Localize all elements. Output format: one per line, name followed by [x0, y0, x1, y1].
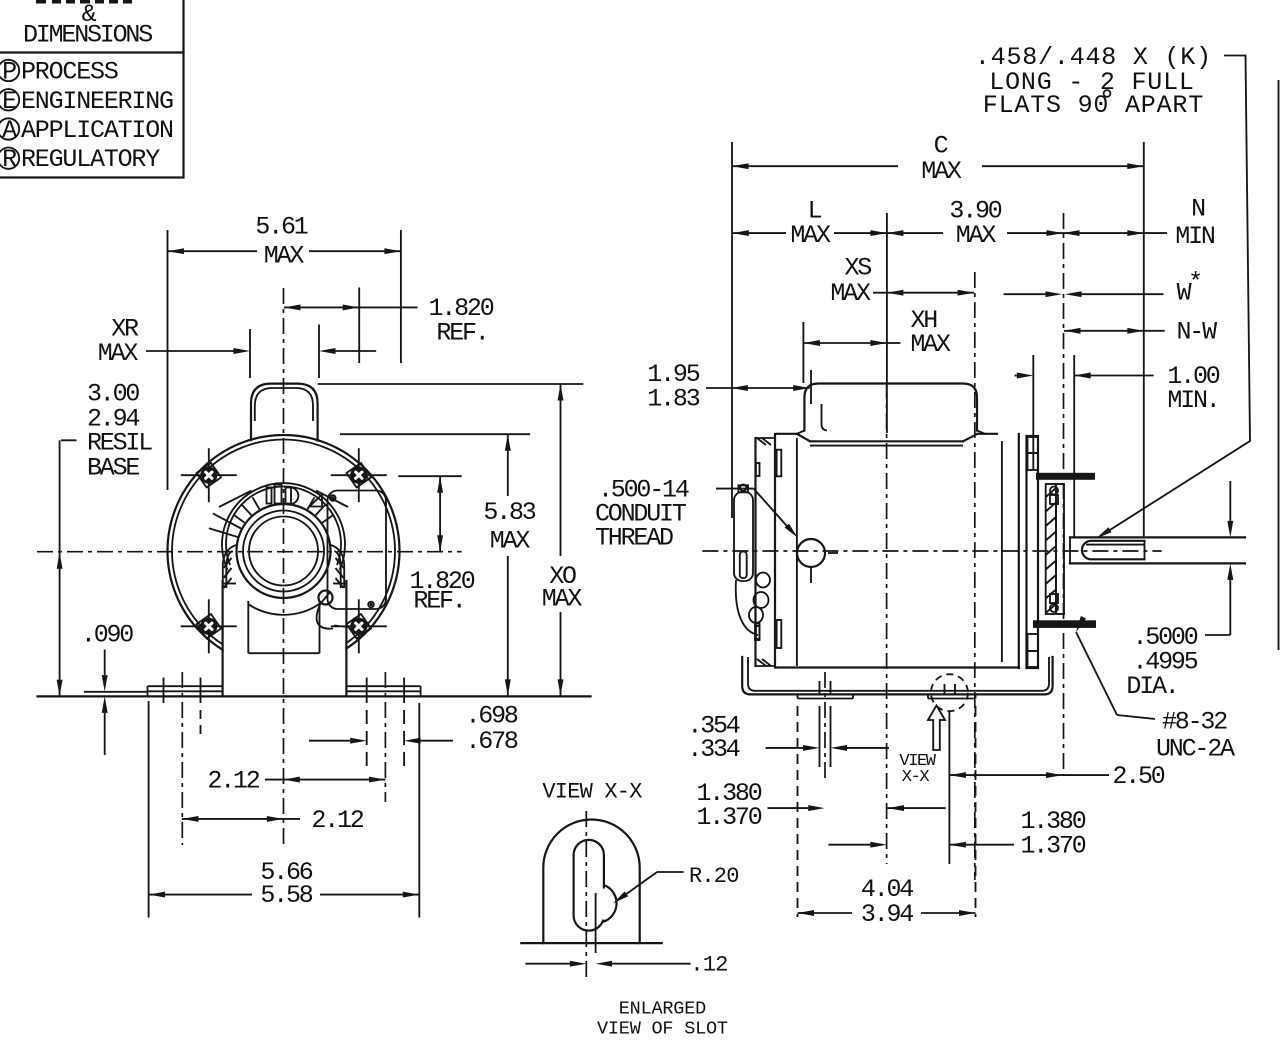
- body top line right: [978, 433, 998, 435]
- label R.20: [657, 871, 684, 873]
- svg-text:DIMENSIONS: DIMENSIONS: [23, 21, 152, 50]
- dim 1.380 1.370 right: [828, 807, 1085, 861]
- slot edge eraser under bump: [602, 889, 605, 920]
- bell bottom arc in window: [248, 604, 319, 615]
- left foot: [148, 685, 222, 687]
- bearing hub hatched seal: [1046, 484, 1056, 614]
- side horizontal centerline: [702, 550, 1161, 552]
- mounting bolt at 208.8,475.2: [181, 448, 237, 502]
- dim .090: [81, 621, 133, 755]
- body top chamfer left: [797, 434, 810, 442]
- dim W*: [1004, 268, 1201, 307]
- body top line left: [777, 433, 797, 435]
- svg-text:BASE: BASE: [87, 454, 139, 483]
- R.20 bump: [603, 885, 617, 922]
- svg-text:REF.: REF.: [436, 319, 487, 348]
- dim N MIN: [1063, 195, 1215, 251]
- svg-text:REF.: REF.: [413, 587, 464, 616]
- conduit boss circle: [797, 539, 825, 567]
- switch cover: [734, 492, 753, 581]
- terminal clamp on hub: [267, 488, 272, 504]
- P circle symbol: [0, 60, 19, 81]
- svg-text:R.20: R.20: [689, 864, 739, 889]
- svg-text:.12: .12: [690, 952, 727, 977]
- svg-text:MAX: MAX: [98, 339, 139, 368]
- R circle symbol: [0, 148, 19, 169]
- hat right chamfer: [977, 431, 985, 434]
- slot X dashed circle: [931, 674, 968, 711]
- window left edge: [247, 601, 249, 653]
- bell top arc outer: [222, 483, 345, 570]
- left end bell inner face: [774, 434, 776, 668]
- window right edge: [319, 601, 321, 653]
- conduit leader: [716, 488, 754, 490]
- conduit tick right: [828, 552, 838, 554]
- left saddle slot: [819, 681, 821, 696]
- svg-text:E: E: [2, 87, 16, 116]
- left resilient clip: [223, 545, 236, 588]
- svg-text:MAX: MAX: [542, 584, 583, 613]
- body top chamfer right: [963, 434, 978, 442]
- svg-text:1.370: 1.370: [696, 803, 761, 832]
- title box divider: [0, 51, 184, 53]
- dim L MAX: [732, 197, 887, 433]
- dim 3.90 MAX: [887, 197, 1063, 250]
- svg-text:VIEW X-X: VIEW X-X: [542, 780, 642, 805]
- dim 4.04 3.94: [798, 875, 976, 929]
- pedestal left edge: [222, 581, 224, 696]
- left bell bottom notch: [756, 626, 760, 639]
- dim .698 .678: [309, 701, 518, 756]
- dim 5.66 5.58: [149, 701, 420, 918]
- left slot centerline: [824, 672, 826, 782]
- title box border: [0, 0, 184, 178]
- svg-text:5.58: 5.58: [260, 881, 312, 910]
- grounding screw: [319, 591, 333, 605]
- right bracket bottom notches: [1028, 634, 1039, 651]
- title block: [0, 0, 183, 178]
- bearing hub outer strip: [1056, 484, 1064, 614]
- svg-text:.334: .334: [687, 735, 739, 764]
- svg-text:2.12: 2.12: [311, 806, 363, 835]
- dim 1.820 REF top: [284, 288, 494, 364]
- dim 2.12 right: [207, 767, 385, 796]
- pedestal white mask: [224, 599, 346, 695]
- terminal block bottom: [777, 620, 782, 648]
- left pad dashed ref: [797, 706, 799, 917]
- left end bell bottom edge: [756, 665, 776, 667]
- motor outer rim circle: [168, 435, 400, 667]
- svg-text:2.12: 2.12: [207, 767, 259, 796]
- svg-text:ENLARGED: ENLARGED: [619, 998, 706, 1019]
- ground wire: [317, 604, 333, 629]
- dim XH MAX: [803, 306, 951, 383]
- svg-text:R: R: [2, 145, 17, 174]
- svg-text:5.61: 5.61: [255, 213, 307, 242]
- label .458/.448 X (K): [975, 43, 1250, 539]
- dim C MAX: [732, 131, 1144, 537]
- mounting bolt at 358.8,626.3: [331, 599, 387, 653]
- slot bracket outline: [543, 820, 639, 944]
- shaft flat end line: [1144, 541, 1146, 560]
- shaft shoulder: [1069, 537, 1071, 563]
- side view of motor: [595, 213, 1245, 917]
- cover top screw: [738, 485, 748, 492]
- right foot: [347, 685, 421, 687]
- dim 5.83 MAX: [340, 434, 536, 696]
- shaft flat inner line: [1086, 544, 1145, 546]
- resilient pad line: [84, 691, 148, 693]
- shaft bore circle: [249, 517, 318, 586]
- svg-text:THREAD: THREAD: [595, 523, 673, 552]
- left end bell outer face: [754, 438, 756, 666]
- pedestal right edge: [345, 581, 347, 696]
- motor inner rim circle: [172, 440, 395, 663]
- right resilient clip: [331, 545, 344, 588]
- hub outer circle: [237, 504, 331, 598]
- front vertical centerline: [283, 288, 285, 846]
- A circle symbol: [0, 118, 19, 139]
- ground wire dashed end: [334, 626, 353, 628]
- svg-text:MAX: MAX: [790, 221, 831, 250]
- slot stadium: [574, 840, 604, 931]
- svg-text:APPLICATION: APPLICATION: [21, 116, 173, 145]
- side slot pattern centerline: [886, 383, 888, 864]
- right bracket top notches: [1028, 437, 1039, 453]
- svg-text:UNC-2A: UNC-2A: [1156, 734, 1235, 763]
- svg-text:MIN: MIN: [1175, 222, 1215, 251]
- slot centerline: [585, 811, 587, 981]
- body interior left face line: [796, 438, 798, 666]
- E circle symbol: [0, 89, 19, 110]
- svg-text:FLATS 90 APART: FLATS 90 APART: [983, 91, 1204, 120]
- dim .354 .334: [687, 711, 889, 764]
- right saddle slot: [944, 684, 946, 696]
- terminal cover plate: [328, 491, 387, 610]
- hub top bolt: [1050, 487, 1058, 495]
- dim XO MAX: [318, 384, 584, 696]
- switch wire: [736, 580, 758, 635]
- left bell hatch bottom: [757, 659, 766, 666]
- hat left chamfer: [797, 431, 804, 434]
- drawing frame right edge: [1278, 80, 1280, 650]
- svg-text:DIA.: DIA.: [1126, 672, 1177, 701]
- svg-text:PROCESS: PROCESS: [21, 58, 118, 87]
- terminal block top: [777, 450, 782, 477]
- plate screw bottom: [368, 602, 374, 608]
- svg-text:VIEW OF SLOT: VIEW OF SLOT: [597, 1018, 728, 1039]
- side view dimensions: [647, 43, 1278, 929]
- label .5000 .4995 DIA: [1126, 481, 1233, 701]
- bottom wire clip: [755, 624, 760, 641]
- cropped top text row: [36, 0, 132, 4]
- dim 2.12 left: [182, 806, 364, 835]
- svg-text:MAX: MAX: [264, 241, 305, 270]
- label #8-32 UNC-2A: [1076, 616, 1235, 763]
- svg-text:MIN.: MIN.: [1167, 386, 1218, 415]
- left pad under saddle: [798, 698, 854, 700]
- shaft top line: [1070, 536, 1245, 538]
- body right edge: [1018, 434, 1020, 668]
- top hat: [804, 384, 977, 431]
- svg-text:A: A: [2, 116, 17, 145]
- bell top arc inner: [226, 486, 341, 565]
- svg-text:2.50: 2.50: [1112, 762, 1164, 791]
- dim .12: [525, 963, 569, 965]
- hub middle circle: [243, 511, 324, 592]
- dim 3.00 2.94 RESIL BASE: [57, 379, 153, 696]
- svg-text:#8-32: #8-32: [1162, 707, 1227, 736]
- svg-text:P: P: [2, 58, 16, 87]
- right shell inner line: [1001, 441, 1003, 662]
- left end bell top edge: [756, 437, 776, 439]
- dim XR MAX: [98, 314, 376, 378]
- svg-text:MAX: MAX: [921, 157, 962, 186]
- svg-text:1.370: 1.370: [1020, 831, 1085, 860]
- svg-text:MAX: MAX: [910, 330, 951, 359]
- dim 1.820 REF right: [398, 476, 474, 615]
- right slot vertical ref: [948, 712, 950, 864]
- left bell top notch: [756, 463, 760, 476]
- stud centerline: [1063, 213, 1065, 775]
- base line: [38, 695, 591, 697]
- enlarged slot view: [521, 780, 738, 1040]
- spring coil 2: [754, 592, 769, 608]
- hatch spokes: [209, 491, 348, 537]
- dim 1.380 1.370 left: [696, 779, 945, 832]
- svg-text:MAX: MAX: [830, 279, 871, 308]
- spring coil 1: [756, 573, 770, 588]
- slot ground line: [521, 942, 661, 944]
- conduit tick bottom: [810, 567, 812, 583]
- svg-text:*: *: [1188, 268, 1201, 297]
- svg-text:3.94: 3.94: [861, 900, 913, 929]
- front view of motor: [37, 288, 591, 846]
- svg-text:N-W: N-W: [1176, 318, 1217, 347]
- dim 1.95 1.83: [647, 360, 811, 414]
- mounting bolt at 208.8,626.3: [181, 599, 237, 653]
- dim 1.00 MIN: [1015, 355, 1220, 537]
- svg-text:REGULATORY: REGULATORY: [21, 145, 160, 174]
- saddle outer: [742, 657, 1052, 694]
- left foot hole ticks: [163, 678, 165, 704]
- saddle inner: [748, 657, 1049, 691]
- pedestal top step left: [223, 583, 236, 585]
- spring coil 3: [749, 607, 763, 623]
- top cap inner line: [255, 388, 313, 421]
- hub bottom bolt: [1050, 604, 1058, 612]
- svg-text:.090: .090: [81, 621, 133, 650]
- svg-text:X-X: X-X: [902, 768, 930, 787]
- plate screw top: [330, 495, 336, 501]
- dim 5.61 MAX: [168, 213, 401, 490]
- right pad under saddle: [928, 698, 976, 700]
- svg-text:ENGINEERING: ENGINEERING: [21, 87, 173, 116]
- bottom through stud: [1033, 620, 1096, 628]
- hat inner seam: [822, 404, 828, 431]
- view X-X arrow: [899, 706, 945, 788]
- left slot extension lines: [819, 706, 821, 767]
- svg-text:MAX: MAX: [490, 526, 531, 555]
- top through stud: [1036, 473, 1095, 480]
- svg-text:N: N: [1191, 195, 1205, 224]
- pedestal top step right: [333, 583, 346, 585]
- body bottom edge: [777, 666, 1019, 668]
- right end bracket band: [1027, 436, 1039, 668]
- window bottom edge: [248, 652, 319, 654]
- mounting bolt at 358.8,475.2: [331, 448, 387, 502]
- front view dimensions: [57, 213, 584, 918]
- front horizontal centerline: [37, 551, 462, 553]
- top cap dome: [251, 384, 318, 441]
- shaft flat: [1082, 541, 1145, 560]
- svg-text:.678: .678: [466, 727, 518, 756]
- dim XS MAX: [830, 254, 974, 880]
- right foot hole ticks: [366, 678, 368, 704]
- dim 2.50: [949, 762, 1164, 791]
- small gusset triangle: [310, 495, 323, 507]
- stator band top lines: [810, 440, 963, 442]
- svg-text:MAX: MAX: [956, 221, 997, 250]
- switch cover slot: [740, 552, 747, 579]
- svg-text:5.83: 5.83: [483, 498, 535, 527]
- left bell hatch top: [757, 438, 766, 445]
- svg-text:1.83: 1.83: [647, 384, 699, 413]
- right pad dashed ref: [975, 706, 977, 917]
- dim N-W: [1064, 318, 1217, 347]
- shaft bottom line: [1070, 562, 1245, 564]
- slot inner vertical line: [595, 893, 597, 953]
